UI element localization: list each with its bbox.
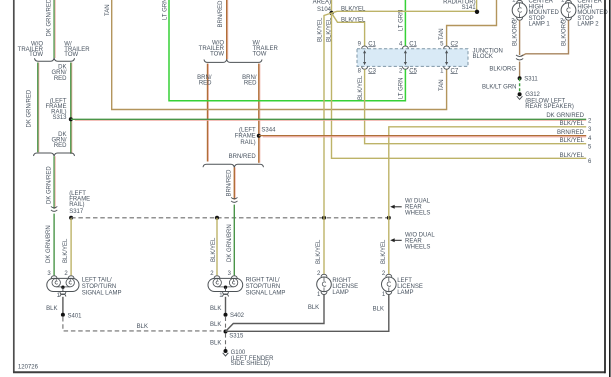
- label W/O DUAL REAR WHEELS: [390, 232, 435, 250]
- svg-text:S141: S141: [462, 5, 477, 11]
- label LEFT TAIL/STOP/TURN SIGNAL LAMP: [82, 277, 122, 296]
- splice S104: [329, 11, 333, 15]
- wire BLK/LT GRN S311 to G312: [482, 78, 520, 94]
- svg-text:REAR: REAR: [405, 238, 422, 244]
- svg-text:W/O DUAL: W/O DUAL: [405, 232, 435, 238]
- wire DK GRN/BRN to left tail lamp: [46, 214, 54, 276]
- label W/ DUAL REAR WHEELS: [390, 198, 430, 216]
- left license lamp: [382, 271, 397, 298]
- junction block: [357, 48, 503, 66]
- label W/O TRAILER TOW (col2): [199, 40, 225, 57]
- svg-text:DK GRN/BRN: DK GRN/BRN: [46, 225, 52, 263]
- svg-text:S104: S104: [317, 7, 332, 13]
- svg-text:DK GRN/RED: DK GRN/RED: [47, 0, 53, 37]
- svg-text:BLK: BLK: [210, 341, 221, 347]
- svg-text:BLK: BLK: [137, 324, 148, 330]
- splice S315: [224, 330, 244, 340]
- label RIGHT TAIL/STOP/TURN SIGNAL LAMP: [246, 277, 286, 296]
- svg-text:(LEFT: (LEFT: [239, 127, 256, 133]
- label (LEFT FRAME RAIL) col2: [235, 127, 256, 145]
- inline connector (col2): [231, 197, 237, 202]
- svg-text:BLK: BLK: [308, 305, 319, 311]
- svg-text:RED: RED: [244, 81, 257, 87]
- splice S401: [61, 313, 82, 320]
- svg-text:BLK/ORG: BLK/ORG: [489, 66, 516, 72]
- svg-text:RAIL): RAIL): [69, 202, 84, 208]
- ground G100: [223, 349, 274, 367]
- splice node left-license on dashed line: [387, 216, 391, 220]
- svg-text:BLK/YEL: BLK/YEL: [211, 237, 217, 262]
- label DK GRN/RED (col1 right branch lower): [52, 132, 68, 149]
- svg-text:REAR: REAR: [405, 205, 422, 211]
- wire BRN/RED (column2 feed): [218, 0, 228, 59]
- svg-text:BLK/YEL: BLK/YEL: [341, 7, 366, 13]
- inline connector (stop lamp harness): [516, 55, 523, 60]
- svg-text:BLK: BLK: [46, 306, 57, 312]
- wire BLK/ORG connector to S311: [489, 62, 519, 79]
- wire BRN/RED S344 to right exit 4: [259, 130, 592, 142]
- wire BLK/YEL to right tail lamp pin2: [211, 218, 217, 276]
- right tail/stop/turn signal lamp: [208, 271, 243, 299]
- wire BRN/RED w/o-trailer branch (col2): [208, 64, 209, 162]
- svg-text:DK GRN/RED: DK GRN/RED: [27, 89, 33, 127]
- junction block pin 2 C5: [399, 66, 418, 74]
- svg-text:BLK/YEL: BLK/YEL: [560, 138, 585, 144]
- wire BLK left tail lamp to S401: [46, 297, 63, 315]
- svg-text:RAIL): RAIL): [240, 140, 255, 146]
- svg-text:S315: S315: [229, 334, 244, 340]
- dashed wire BLK S402 to S315: [210, 317, 225, 332]
- svg-text:TOW: TOW: [64, 52, 78, 58]
- svg-text:RED: RED: [54, 76, 67, 82]
- wire BLK/YEL S104 to S141: [332, 7, 477, 14]
- splice node right-tail on dashed line: [215, 216, 219, 220]
- wire DK GRN/RED w/-trailer branch: [71, 63, 72, 154]
- svg-text:WHEELS: WHEELS: [405, 245, 430, 251]
- svg-text:BRN/RED: BRN/RED: [218, 0, 224, 28]
- page frame left border: [13, 0, 15, 372]
- svg-text:S311: S311: [524, 77, 538, 83]
- label W/O TRAILER TOW (col1): [18, 41, 44, 58]
- wire BLK/YEL to left license lamp / exit 3: [389, 121, 592, 218]
- wire LT GRN (junction pin2 C5 down, left, to top): [162, 0, 405, 101]
- page frame right border outer: [609, 0, 611, 377]
- wire DK GRN/RED w/o-trailer branch: [27, 63, 39, 153]
- svg-text:LT GRN: LT GRN: [398, 10, 404, 31]
- diagram id 120726: [18, 364, 39, 370]
- svg-text:LAMP 2: LAMP 2: [577, 22, 599, 28]
- label W/ TRAILER TOW (col1): [64, 41, 90, 58]
- brace column1 top (trailer tow split): [35, 58, 75, 61]
- junction block pin 5 C2: [440, 42, 459, 49]
- label (LEFT FRAME RAIL) S313: [46, 98, 68, 121]
- junction block pin 9 C1: [358, 42, 377, 49]
- wire DK GRN/RED (left column feed): [47, 0, 56, 58]
- svg-text:BLK/YEL: BLK/YEL: [560, 153, 585, 159]
- svg-text:BLK/ORG: BLK/ORG: [562, 19, 568, 46]
- splice S317: [69, 216, 73, 220]
- label W/ TRAILER TOW (col2): [253, 40, 279, 57]
- junction block internal circuit 5-1: [445, 50, 448, 65]
- svg-text:BLK/YEL: BLK/YEL: [358, 75, 364, 100]
- svg-text:SIGNAL LAMP: SIGNAL LAMP: [82, 290, 122, 296]
- wire BLK/YEL junction pin8 to exit 5: [358, 69, 586, 144]
- svg-text:G312: G312: [525, 92, 540, 98]
- brace column2 bottom (trailer tow merge): [203, 164, 264, 167]
- svg-text:BRN/RED: BRN/RED: [557, 130, 585, 136]
- junction block pin 4 C1: [399, 42, 418, 49]
- label BRN/RED (col2 left branch): [197, 75, 212, 87]
- label CENTER HIGH MOUNTED STOP LAMP 2: [577, 0, 608, 27]
- svg-text:BLK: BLK: [373, 307, 384, 313]
- dashed wire BLK S401 to S315: [63, 317, 224, 331]
- center high mounted stop lamp 1: [511, 0, 527, 24]
- svg-text:FRAME: FRAME: [235, 134, 256, 140]
- svg-text:BLK/YEL: BLK/YEL: [326, 17, 332, 42]
- svg-text:STOP/TURN: STOP/TURN: [82, 284, 117, 290]
- label LEFT LICENSE LAMP: [397, 278, 423, 296]
- wire BLK/YEL S104 down to exit 6: [326, 13, 586, 158]
- svg-text:BLK/YEL: BLK/YEL: [560, 121, 585, 127]
- dashed wire BLK S315 to G100: [210, 334, 225, 351]
- splice S313: [69, 117, 73, 121]
- svg-text:BLK/LT GRN: BLK/LT GRN: [482, 85, 516, 91]
- wire LT GRN (from top into junction pin4): [398, 0, 405, 47]
- brace column2 top (trailer tow split): [204, 59, 262, 62]
- svg-text:SIDE SHIELD): SIDE SHIELD): [231, 361, 270, 367]
- label BRN/RED (above col2 merge): [229, 154, 257, 160]
- svg-text:DK GRN/RED: DK GRN/RED: [546, 113, 584, 119]
- svg-text:BLK/YEL: BLK/YEL: [316, 239, 322, 264]
- svg-text:S317: S317: [69, 209, 84, 215]
- wire DK GRN/RED to connector (col1): [47, 156, 56, 209]
- svg-text:LT GRN: LT GRN: [162, 0, 168, 20]
- wire TAN (from top into junction pin5): [439, 0, 496, 47]
- splice node right-license on dashed line: [322, 216, 326, 220]
- page frame right border inner: [604, 0, 606, 373]
- svg-text:W/ DUAL: W/ DUAL: [405, 198, 431, 204]
- svg-text:LAMP: LAMP: [397, 290, 413, 296]
- label DK GRN/RED (col1 right branch upper): [52, 65, 68, 82]
- label S344: [261, 127, 276, 133]
- svg-text:RED: RED: [54, 143, 67, 149]
- svg-text:DK GRN/RED: DK GRN/RED: [47, 166, 53, 204]
- svg-text:BLOCK: BLOCK: [473, 54, 493, 60]
- wire BLK/YEL feed into S104: [331, 0, 333, 13]
- svg-text:BLK/YEL: BLK/YEL: [317, 17, 323, 42]
- svg-text:BRN/RED: BRN/RED: [227, 169, 233, 197]
- wire BLK/ORG lamp1 down: [513, 19, 520, 55]
- center high mounted stop lamp 2: [560, 0, 576, 24]
- svg-text:TOW: TOW: [210, 52, 224, 58]
- wire BLK right license lamp to S315: [226, 294, 325, 331]
- wire BLK/YEL to left tail lamp pin2: [63, 218, 71, 276]
- svg-text:BLK/YEL: BLK/YEL: [63, 238, 69, 263]
- inline connector (left frame rail, col1): [51, 206, 57, 211]
- label BRN/RED (col2 right branch): [242, 75, 257, 87]
- junction block internal circuit 9-8: [363, 50, 366, 65]
- dashed option wire (S317 to license lamps): [71, 217, 389, 219]
- svg-text:TAN: TAN: [439, 28, 445, 40]
- label RADIATOR) S141: [443, 0, 476, 11]
- wire BRN/RED w/-trailer branch (col2): [259, 64, 260, 163]
- svg-text:REAR SPEAKER): REAR SPEAKER): [525, 104, 574, 110]
- wire TAN (junction pin1 C7 down and left, to top): [105, 0, 447, 110]
- svg-text:RED: RED: [199, 81, 212, 87]
- svg-text:LAMP 1: LAMP 1: [529, 22, 551, 28]
- svg-text:120726: 120726: [18, 364, 39, 370]
- label AREA) S104: [313, 0, 332, 13]
- wire BLK/YEL exit3 node to left license lamp: [381, 218, 389, 275]
- svg-text:WHEELS: WHEELS: [405, 211, 430, 217]
- svg-text:TAN: TAN: [105, 4, 111, 16]
- svg-text:S401: S401: [68, 313, 83, 319]
- svg-text:LEFT TAIL/: LEFT TAIL/: [82, 277, 112, 283]
- svg-text:S344: S344: [261, 127, 276, 133]
- svg-text:BLK: BLK: [210, 306, 221, 312]
- splice S344: [257, 134, 261, 138]
- svg-text:BLK/YEL: BLK/YEL: [341, 18, 366, 24]
- svg-text:LT GRN: LT GRN: [398, 78, 404, 99]
- svg-text:TAN: TAN: [439, 79, 445, 91]
- wire BLK/YEL feed into S141: [476, 0, 478, 11]
- wire BLK/YEL S104 down to right license lamp: [317, 13, 331, 218]
- wire BLK right tail lamp to S402: [210, 297, 225, 315]
- left tail/stop/turn signal lamp: [47, 271, 79, 299]
- svg-text:DK GRN/BRN: DK GRN/BRN: [227, 224, 233, 262]
- ground G312: [517, 92, 574, 110]
- splice S402: [224, 313, 245, 319]
- wire BRN/RED to connector (col2): [227, 167, 236, 199]
- right license lamp: [317, 271, 332, 298]
- wire BLK left license lamp to S315: [226, 294, 389, 331]
- svg-text:BRN/RED: BRN/RED: [229, 154, 257, 160]
- svg-text:G100: G100: [231, 350, 246, 356]
- svg-text:AREA): AREA): [313, 0, 331, 6]
- label CENTER HIGH MOUNTED STOP LAMP 1: [529, 0, 560, 27]
- page frame bottom border: [13, 371, 605, 373]
- svg-text:TOW: TOW: [29, 52, 43, 58]
- label exit5 BLK/YEL: [560, 138, 592, 150]
- junction block pin 1 C7: [440, 66, 459, 74]
- svg-text:S313: S313: [52, 115, 67, 121]
- wire DK GRN/BRN to right tail lamp pin3: [227, 205, 234, 276]
- svg-text:BLK: BLK: [210, 322, 221, 328]
- svg-text:STOP/TURN: STOP/TURN: [246, 284, 281, 290]
- wire BLK/YEL S104 to junction pin9: [332, 13, 367, 47]
- label (LEFT FRAME RAIL) S317: [69, 191, 90, 215]
- brace column1 bottom (trailer tow merge): [34, 153, 75, 156]
- splice S311: [518, 76, 539, 82]
- wire DK GRN/RED S313 to right exit 2: [71, 113, 592, 124]
- junction block pin 8 C3: [358, 66, 377, 74]
- splice S141: [475, 10, 479, 14]
- wire BLK/ORG lamp2 down-left: [521, 19, 569, 56]
- svg-text:BLK/YEL: BLK/YEL: [381, 239, 387, 264]
- svg-text:S402: S402: [230, 313, 245, 319]
- wire BLK/YEL S104 node to right license lamp: [316, 218, 324, 275]
- junction block internal circuit 4-2: [404, 50, 407, 65]
- label exit6 BLK/YEL: [560, 153, 592, 165]
- svg-text:TOW: TOW: [253, 52, 267, 58]
- svg-text:LAMP: LAMP: [332, 290, 348, 296]
- svg-text:RIGHT TAIL/: RIGHT TAIL/: [246, 277, 280, 283]
- svg-text:BLK/ORG: BLK/ORG: [513, 19, 519, 46]
- svg-text:SIGNAL LAMP: SIGNAL LAMP: [246, 290, 286, 296]
- label RIGHT LICENSE LAMP: [332, 278, 358, 296]
